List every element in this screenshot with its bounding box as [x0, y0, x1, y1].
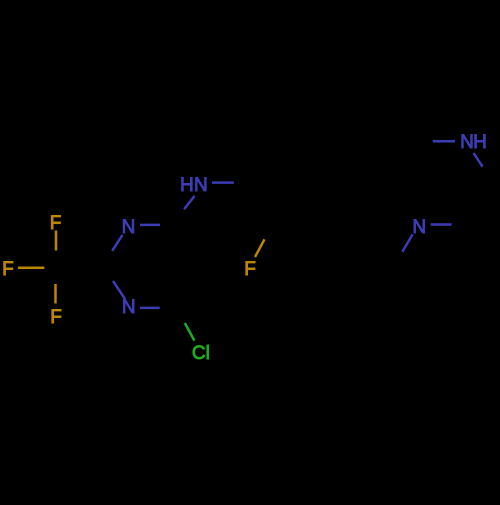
svg-text:N: N: [122, 217, 136, 238]
bond N3 - C2 of pyrimidine (N half): [113, 281, 125, 299]
bond aryl C - F (F half): [255, 239, 265, 257]
svg-text:Cl: Cl: [192, 343, 210, 364]
bond CF3 C - F left (F half): [18, 267, 44, 270]
bond piperazine N - C right (N half): [431, 223, 452, 226]
svg-text:N: N: [412, 217, 426, 238]
bond piperazine NH - C left (N half): [433, 140, 455, 143]
svg-text:H: H: [473, 132, 487, 153]
bond N1 - C4 of pyrimidine (N half): [140, 224, 160, 227]
bond piperazine N - C lower-left (N half): [402, 234, 412, 252]
bond CF3 C - F top (F half): [55, 231, 58, 251]
svg-text:N: N: [122, 297, 136, 318]
bond amine N - C4 (N half): [184, 196, 195, 209]
bond N3 - C6 of pyrimidine (N half): [140, 307, 160, 310]
bond piperazine NH - C lower-right (N half): [474, 153, 483, 167]
svg-text:F: F: [50, 213, 62, 234]
bond N1 - C2 of pyrimidine (N half): [112, 235, 122, 251]
svg-text:F: F: [50, 307, 62, 328]
svg-text:H: H: [180, 175, 194, 196]
svg-text:F: F: [2, 259, 14, 280]
bond C6 - Cl (Cl half): [185, 323, 195, 341]
bond amine N - C ipso (N half): [212, 181, 234, 184]
svg-text:N: N: [460, 132, 474, 153]
svg-text:F: F: [244, 259, 256, 280]
bond CF3 C - F bottom (F half): [54, 284, 57, 304]
svg-text:N: N: [194, 175, 208, 196]
